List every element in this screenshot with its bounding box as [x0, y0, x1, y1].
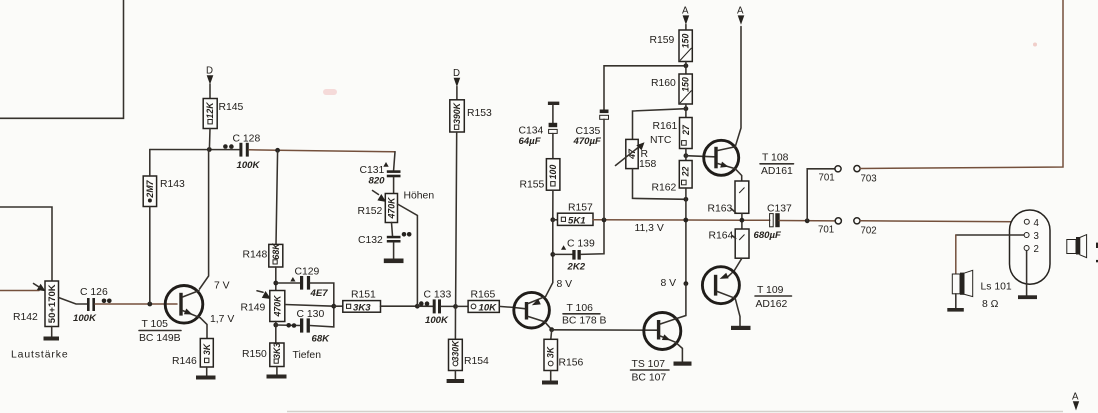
wire R143 top to rail — [149, 150, 151, 177]
wire node B to C130 — [276, 324, 300, 327]
svg-text:NTC: NTC — [650, 135, 672, 146]
wire R164 to T109 emitter — [727, 258, 742, 277]
resistor R157 — [558, 213, 594, 226]
svg-text:68K: 68K — [271, 243, 281, 260]
wire R143 bottom to base node — [149, 207, 151, 305]
svg-text:C129: C129 — [295, 267, 320, 278]
ground below R156 — [542, 381, 558, 385]
svg-text:AD162: AD162 — [756, 299, 788, 310]
svg-text:R159: R159 — [650, 35, 675, 46]
resistor R155 — [546, 159, 560, 191]
wire TS107 emitter to ground — [675, 342, 682, 361]
ground below T109 — [731, 326, 751, 330]
svg-text:158: 158 — [639, 159, 657, 170]
svg-text:BC 107: BC 107 — [632, 373, 667, 384]
svg-text:Lautstärke: Lautstärke — [11, 350, 69, 361]
transistor T105 — [165, 286, 203, 324]
svg-text:1,7 V: 1,7 V — [210, 314, 234, 325]
resistor R146 — [200, 339, 213, 368]
C139 mark triangle — [561, 245, 566, 249]
ground below R150 — [267, 375, 287, 379]
svg-text:A: A — [737, 6, 744, 17]
svg-text:3K: 3K — [546, 346, 556, 358]
svg-text:R152: R152 — [358, 206, 383, 217]
wire node to C129 — [276, 282, 300, 284]
terminal 702 — [854, 218, 860, 224]
capacitor C135 electrolytic — [600, 110, 609, 120]
wire C135 to rail — [603, 119, 605, 220]
wire junction to R165 — [456, 305, 469, 307]
svg-text:T 108: T 108 — [762, 153, 789, 164]
wire R153 to junction — [456, 132, 457, 306]
wire input to R142 wiper — [0, 290, 39, 292]
transistor T106 — [514, 292, 550, 328]
wire R149 bottom to R150 — [275, 322, 277, 344]
node junction R160/R161/R158 — [684, 106, 689, 111]
svg-text:3: 3 — [1034, 231, 1039, 242]
resistor R159 — [679, 30, 692, 62]
ground below connector — [1018, 295, 1037, 299]
svg-text:C 139: C 139 — [567, 239, 595, 250]
node junction Hoehen/C133 — [415, 304, 420, 309]
resistor R164 — [735, 229, 749, 258]
wire R146 to ground — [206, 367, 208, 376]
svg-text:2M7: 2M7 — [145, 179, 155, 198]
svg-text:D: D — [206, 66, 213, 77]
wire junction to C139 — [553, 253, 573, 255]
svg-text:R165: R165 — [471, 290, 496, 301]
wire C139 to rail column — [581, 220, 604, 255]
svg-text:100K: 100K — [425, 315, 449, 326]
R158 arrowhead — [636, 142, 644, 150]
svg-text:12K: 12K — [205, 102, 215, 119]
wire R163 to rail — [741, 213, 743, 229]
wire R151 to node — [381, 305, 418, 307]
C132 style dots — [402, 232, 407, 237]
node junction T106 collector — [549, 327, 554, 332]
svg-text:22: 22 — [681, 167, 691, 178]
fraction line T108 — [760, 163, 794, 165]
potentiometer R142 wiper arrow — [37, 284, 46, 291]
svg-text:10K: 10K — [479, 302, 498, 313]
svg-text:8 V: 8 V — [557, 279, 573, 290]
svg-text:C132: C132 — [358, 235, 383, 246]
svg-text:100K: 100K — [73, 313, 97, 324]
wire C126 to T105 base — [95, 303, 177, 305]
svg-text:R148: R148 — [243, 250, 268, 261]
svg-text:2: 2 — [1034, 244, 1039, 255]
svg-text:R153: R153 — [467, 108, 492, 119]
wire 702 to connector pin 4 — [860, 221, 1024, 222]
svg-text:R145: R145 — [219, 102, 244, 113]
capacitor C126 — [87, 298, 95, 311]
capacitor C128 — [239, 143, 248, 157]
svg-text:C 128: C 128 — [233, 134, 261, 145]
svg-text:R164: R164 — [709, 231, 734, 242]
svg-text:R156: R156 — [559, 358, 584, 369]
node junction R148 column — [275, 148, 280, 153]
wire R155 to rail — [552, 190, 554, 220]
node junction R143/base — [147, 302, 152, 307]
wire T109 collector to ground — [735, 298, 740, 326]
R164 label leader — [732, 236, 736, 239]
svg-text:A: A — [682, 6, 689, 17]
wire T105 collector — [200, 150, 209, 290]
node junction R145 bottom — [207, 147, 212, 152]
R163 label leader — [731, 209, 736, 213]
C129 mark triangle — [290, 277, 295, 282]
potentiometer R142 — [45, 281, 59, 327]
svg-text:R155: R155 — [520, 180, 545, 191]
node junction R153/R154/R165 — [453, 304, 458, 309]
capacitor C131 — [387, 170, 401, 177]
C131 mark triangle — [383, 162, 388, 167]
wire R158 down to node — [633, 169, 686, 200]
svg-text:C131: C131 — [360, 165, 385, 176]
svg-text:470µF: 470µF — [573, 136, 603, 147]
resistor R163 — [735, 181, 749, 213]
node junction R159/R160 — [684, 63, 689, 68]
capacitor C137 electrolytic — [770, 213, 780, 227]
wire C128 to Hoehen corner — [249, 150, 395, 152]
svg-text:702: 702 — [861, 226, 877, 237]
svg-text:4: 4 — [1034, 218, 1040, 229]
svg-text:680µF: 680µF — [754, 230, 783, 241]
connector socket outline — [1010, 210, 1051, 284]
node D arrow — [454, 78, 461, 87]
resistor R151 — [343, 301, 381, 314]
transistor T109 — [702, 267, 739, 304]
svg-text:C 130: C 130 — [297, 309, 325, 320]
wire A arrow to R159 — [685, 25, 687, 31]
wire C134 to R155 — [552, 134, 554, 159]
potentiometer R149 arrow tail — [257, 291, 263, 293]
wire D arrow to R153 — [456, 87, 458, 100]
svg-text:C 133: C 133 — [424, 290, 452, 301]
wire R142 wiper to C126 — [59, 298, 88, 305]
svg-text:R154: R154 — [464, 356, 489, 367]
wire R160 to R161 — [685, 104, 687, 118]
potentiometer R149 — [270, 291, 285, 322]
ground below TS107 — [674, 362, 692, 366]
wire R150 to ground — [276, 367, 278, 375]
svg-text:R150: R150 — [242, 349, 267, 360]
wire T106 collector to node — [545, 322, 552, 330]
resistor R150 — [270, 343, 284, 367]
wire C133 to junction — [441, 305, 456, 307]
svg-text:Höhen: Höhen — [404, 191, 435, 202]
wire junction to R157 — [553, 219, 558, 221]
svg-text:68K: 68K — [312, 334, 331, 345]
node junction R161/R162/T108 base — [684, 153, 689, 158]
fraction line TS107 — [631, 369, 670, 371]
pin 3 — [1024, 233, 1029, 238]
wire Ls101 to ground — [955, 294, 957, 308]
svg-text:27: 27 — [681, 124, 691, 136]
fraction line T106 — [563, 313, 600, 315]
terminal 703 — [854, 166, 860, 172]
transistor T108 — [704, 140, 739, 175]
svg-text:T 106: T 106 — [567, 303, 594, 314]
capacitor C134 electrolytic — [549, 123, 558, 134]
wire column to C139 — [552, 220, 554, 255]
loudspeaker Ls101 — [952, 270, 972, 296]
svg-text:R151: R151 — [351, 290, 376, 301]
svg-text:150: 150 — [681, 77, 691, 92]
wire T108 collector to A arrow — [735, 27, 741, 147]
svg-text:470K: 470K — [386, 197, 396, 220]
chassis bar above C134 — [548, 102, 559, 105]
svg-text:TS 107: TS 107 — [632, 359, 666, 370]
svg-text:R162: R162 — [652, 183, 677, 194]
resistor R153 — [450, 100, 465, 132]
capacitor C132 — [387, 236, 401, 243]
svg-text:4E7: 4E7 — [310, 288, 329, 299]
ground below Ls101 — [947, 308, 964, 312]
wire bus to R151 — [334, 305, 343, 307]
wire 701 branch up — [807, 169, 835, 221]
C128 style dots — [223, 144, 228, 149]
resistor R161 — [680, 118, 693, 149]
wire R159 to R160 — [685, 62, 687, 75]
wire R165 to T106 base — [499, 306, 526, 308]
wire R156 to ground — [550, 371, 552, 381]
svg-text:R163: R163 — [708, 204, 733, 215]
pin 4 — [1024, 219, 1029, 224]
wire from left edge to R142 top — [0, 207, 52, 281]
node B junction R149/R150/C130 — [273, 323, 278, 328]
resistor R156 — [544, 339, 558, 370]
node junction C135 column on rail — [602, 218, 607, 223]
svg-text:2K2: 2K2 — [567, 262, 586, 273]
terminal 701 bottom — [835, 218, 841, 224]
svg-text:7 V: 7 V — [214, 281, 230, 292]
capacitor C130 — [300, 318, 310, 332]
svg-text:701: 701 — [818, 225, 834, 236]
resistor R143 — [143, 176, 156, 207]
wire T108 emitter to R163 — [735, 169, 741, 181]
svg-text:R161: R161 — [653, 121, 678, 132]
potentiometer R158 — [626, 139, 638, 168]
wire T106 collector to TS107 base — [552, 329, 659, 331]
node A junction R148/R149/C129 — [273, 281, 278, 286]
node junction 8V — [684, 281, 689, 286]
C130 style dots — [286, 323, 291, 328]
svg-text:820: 820 — [369, 176, 386, 187]
resistor R148 — [269, 243, 283, 267]
node junction rail crossing — [683, 218, 688, 223]
text fragment at right edge — [1096, 243, 1098, 248]
svg-text:150: 150 — [681, 34, 691, 49]
svg-text:A: A — [1072, 392, 1079, 403]
red speck artifact — [1033, 43, 1037, 47]
potentiometer R152 — [385, 194, 397, 223]
svg-text:AD161: AD161 — [761, 166, 793, 177]
wire pin 2 to ground — [1026, 251, 1028, 296]
wire T106 emitter up — [546, 254, 553, 296]
svg-text:3K3: 3K3 — [353, 302, 371, 313]
wire C131 to R152 — [393, 177, 395, 193]
ground below C132 — [384, 259, 404, 264]
text fragment at right edge lower — [1096, 260, 1098, 262]
node A arrow — [683, 15, 690, 24]
svg-text:50+170K: 50+170K — [47, 284, 58, 323]
svg-text:3K: 3K — [202, 343, 212, 355]
resistor R165 — [468, 301, 499, 314]
svg-text:R149: R149 — [241, 303, 266, 314]
wire corner to C131 — [394, 152, 395, 171]
svg-text:100: 100 — [548, 165, 558, 180]
svg-text:R160: R160 — [651, 78, 676, 89]
svg-text:Tiefen: Tiefen — [293, 350, 322, 361]
svg-text:8 V: 8 V — [661, 278, 677, 289]
C126 style dots — [102, 299, 107, 304]
capacitor C129 — [300, 276, 310, 290]
fraction line T105 — [139, 330, 181, 332]
rail wire R157 to C137 — [593, 219, 770, 222]
svg-text:D: D — [453, 68, 460, 79]
resistor R145 — [203, 99, 217, 129]
R158 diagonal arrow — [616, 146, 641, 166]
ground below R146 — [196, 376, 216, 380]
wire C135 column top — [604, 66, 686, 110]
svg-text:470K: 470K — [272, 295, 282, 318]
potentiometer R149 wiper arrow — [262, 291, 271, 299]
wire C132 to ground — [393, 243, 395, 259]
svg-text:BC 178 B: BC 178 B — [562, 316, 607, 327]
wire 703 to top right corner — [860, 0, 1063, 169]
svg-text:390K: 390K — [452, 102, 462, 124]
svg-text:C134: C134 — [519, 126, 544, 137]
wire 8V node down to TS107 collector — [676, 284, 686, 319]
wire R152 to C132 — [392, 223, 393, 236]
red smudge artifact — [323, 89, 337, 95]
svg-text:64µF: 64µF — [519, 136, 542, 147]
svg-text:100K: 100K — [237, 160, 261, 171]
wire C130 to bus — [310, 306, 334, 327]
wire R152 wiper down to node — [398, 204, 418, 306]
node junction C139 left — [550, 252, 555, 257]
fraction line T109 — [755, 295, 792, 297]
svg-text:T 109: T 109 — [757, 285, 784, 296]
svg-text:703: 703 — [861, 174, 877, 185]
wire R162 to rail and below — [685, 188, 687, 284]
C133 style dots — [419, 301, 424, 306]
wire pin 3 to speaker — [956, 234, 1024, 236]
pin 2 — [1024, 246, 1029, 251]
node junction R162 bottom — [684, 197, 689, 202]
wire R154 to ground — [454, 371, 456, 380]
node D arrow — [207, 75, 214, 84]
svg-text:R157: R157 — [568, 203, 593, 214]
svg-text:R143: R143 — [160, 179, 185, 190]
svg-text:701: 701 — [819, 173, 835, 184]
node junction R151 left — [331, 304, 336, 309]
transistor TS107 — [644, 313, 681, 350]
svg-text:C 126: C 126 — [80, 287, 108, 298]
potentiometer R152 arrow tail — [373, 191, 379, 195]
svg-text:BC 149B: BC 149B — [139, 333, 181, 344]
capacitor C133 — [433, 299, 441, 313]
svg-text:R142: R142 — [13, 312, 38, 323]
terminal 701 top — [835, 166, 841, 172]
node junction R157 left — [550, 217, 555, 222]
node A arrow at T108 — [738, 15, 745, 24]
wire rail y149 left segment — [150, 149, 240, 151]
wire node to C133 — [417, 305, 432, 307]
block box top-left corner — [0, 0, 124, 118]
resistor R154 — [449, 339, 463, 370]
wire junction to R158 column — [633, 109, 686, 140]
svg-text:C137: C137 — [767, 204, 792, 215]
wire T105 emitter to R146 — [200, 318, 207, 339]
svg-text:5K1: 5K1 — [568, 215, 586, 226]
wire junction to R148 — [276, 150, 278, 244]
ground below R142 — [44, 337, 60, 341]
rail wire C137 to 701 — [779, 220, 835, 222]
node junction R163/R164/rail — [740, 218, 745, 223]
svg-text:R146: R146 — [172, 356, 197, 367]
node A arrow bottom right — [1073, 401, 1079, 410]
resistor R160 — [679, 74, 692, 104]
wire R161 to R162 — [685, 149, 687, 161]
wire node to R156 — [550, 330, 553, 340]
wire R142 to ground — [51, 327, 53, 337]
resistor R162 — [679, 161, 692, 189]
wire junction to R154 — [454, 306, 456, 339]
wire R148 to R149 — [275, 267, 277, 291]
svg-text:3K3: 3K3 — [272, 343, 282, 359]
node junction 701 branch — [805, 218, 810, 223]
speaker icon right edge — [1067, 235, 1087, 258]
capacitor C139 — [572, 250, 581, 260]
wire bar to C134 — [552, 105, 554, 123]
svg-text:330K: 330K — [450, 340, 460, 362]
svg-text:8 Ω: 8 Ω — [982, 299, 999, 310]
wire R149 wiper to bus — [285, 305, 334, 307]
wire C129 to bus — [310, 283, 334, 306]
faint page edge line — [287, 411, 1063, 413]
wire T108 base — [686, 156, 714, 157]
wire R145 bottom to junction — [208, 129, 211, 150]
ground below R154 — [447, 379, 465, 383]
wire D arrow to R145 — [209, 84, 211, 99]
svg-text:11,3 V: 11,3 V — [635, 223, 664, 234]
potentiometer R152 wiper arrow — [377, 194, 386, 202]
svg-text:T 105: T 105 — [142, 319, 169, 330]
svg-text:Ls 101: Ls 101 — [981, 282, 1012, 293]
